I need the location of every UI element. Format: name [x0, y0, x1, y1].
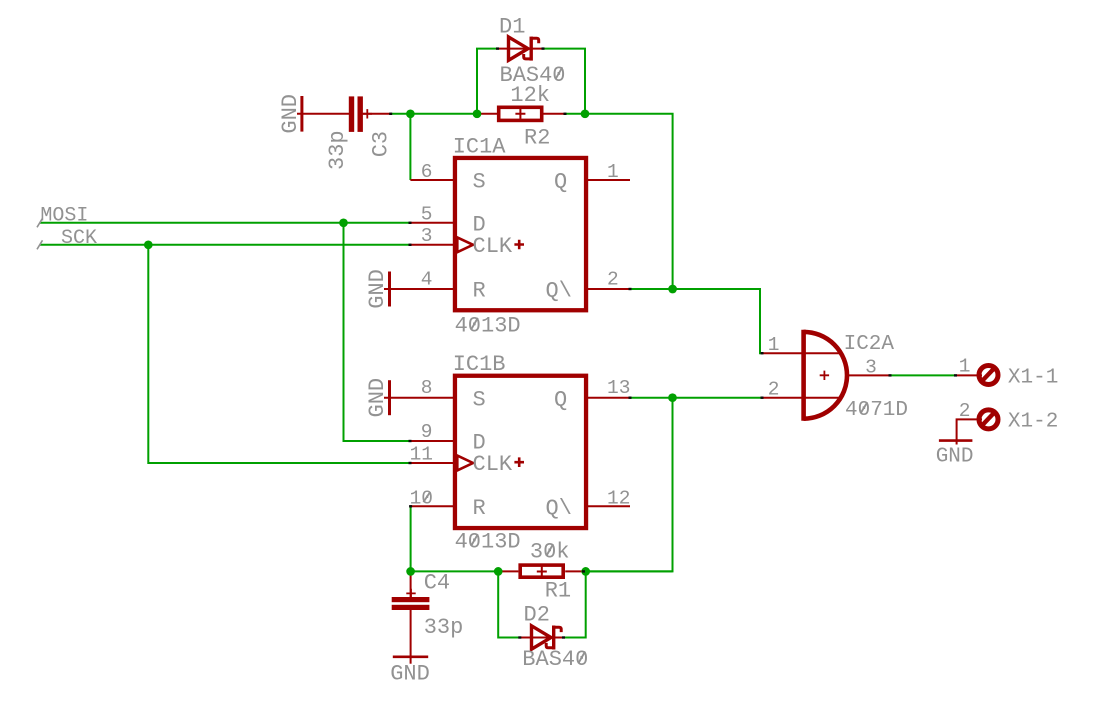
svg-text:Q\: Q\: [546, 496, 572, 521]
svg-text:GND: GND: [365, 378, 390, 418]
svg-text:10: 10: [410, 488, 433, 510]
svg-text:Q: Q: [554, 387, 567, 412]
svg-text:13: 13: [607, 377, 630, 399]
svg-text:2: 2: [768, 379, 780, 401]
svg-text:MOSI: MOSI: [40, 204, 88, 227]
svg-text:30k: 30k: [530, 540, 570, 565]
svg-text:Q\: Q\: [546, 279, 572, 304]
svg-text:3: 3: [865, 357, 877, 379]
svg-text:S: S: [473, 170, 486, 195]
svg-text:2: 2: [607, 269, 619, 291]
svg-text:1: 1: [607, 161, 619, 183]
svg-text:D1: D1: [499, 15, 525, 40]
svg-text:SCK: SCK: [61, 227, 97, 250]
svg-text:GND: GND: [936, 446, 974, 469]
svg-text:D2: D2: [524, 602, 550, 627]
svg-text:2: 2: [959, 400, 971, 422]
svg-text:BAS40: BAS40: [522, 647, 588, 672]
svg-text:4071D: 4071D: [845, 399, 908, 422]
svg-text:CLK: CLK: [473, 452, 513, 477]
svg-text:11: 11: [410, 443, 433, 465]
svg-text:1: 1: [768, 334, 780, 356]
svg-text:S: S: [473, 387, 486, 412]
svg-text:GND: GND: [365, 269, 390, 309]
svg-text:R2: R2: [524, 126, 550, 151]
svg-text:R: R: [473, 279, 486, 304]
svg-text:X1-1: X1-1: [1008, 366, 1058, 389]
svg-text:33p: 33p: [325, 130, 350, 170]
svg-text:X1-2: X1-2: [1008, 410, 1058, 433]
svg-text:9: 9: [421, 421, 433, 443]
svg-text:C3: C3: [368, 131, 393, 157]
svg-text:R: R: [473, 496, 486, 521]
svg-text:8: 8: [421, 377, 433, 399]
svg-text:C4: C4: [424, 570, 450, 595]
svg-text:4: 4: [421, 269, 433, 291]
svg-text:3: 3: [421, 225, 433, 247]
svg-text:IC1A: IC1A: [453, 134, 507, 159]
svg-text:Q: Q: [554, 170, 567, 195]
svg-text:IC2A: IC2A: [844, 333, 895, 356]
svg-text:R1: R1: [545, 578, 571, 603]
svg-text:4013D: 4013D: [455, 530, 521, 555]
svg-text:5: 5: [421, 203, 433, 225]
svg-text:6: 6: [421, 161, 433, 183]
svg-text:4013D: 4013D: [455, 313, 521, 338]
svg-text:GND: GND: [390, 662, 430, 687]
svg-text:1: 1: [959, 356, 971, 378]
svg-text:IC1B: IC1B: [453, 352, 506, 377]
svg-text:12k: 12k: [510, 83, 550, 108]
svg-text:12: 12: [607, 488, 630, 510]
svg-text:CLK: CLK: [473, 234, 513, 259]
svg-text:33p: 33p: [424, 615, 464, 640]
svg-text:GND: GND: [278, 94, 303, 134]
